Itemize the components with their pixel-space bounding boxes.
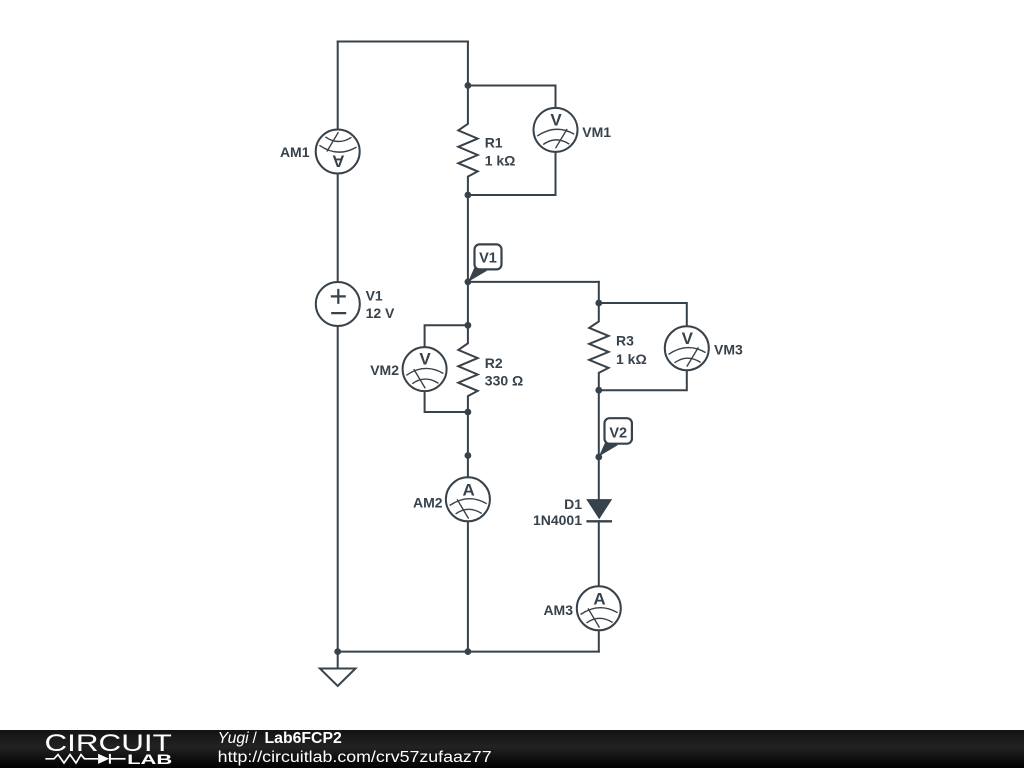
wire: VM3 top connection (599, 303, 687, 326)
wire: node V1 down to R2 top node (467, 282, 469, 325)
ammeter AM1 (flipped vertically) (316, 130, 360, 174)
svg-text:http://circuitlab.com/crv57zuf: http://circuitlab.com/crv57zufaaz77 (218, 749, 492, 766)
net tag V1 (468, 244, 501, 282)
wire: top horizontal rail (338, 41, 468, 43)
resistor R1 (458, 86, 477, 196)
svg-text:1 kΩ: 1 kΩ (616, 351, 647, 367)
svg-text:AM2: AM2 (413, 494, 443, 510)
wire: VM1 top connection (468, 86, 556, 108)
svg-text:AM1: AM1 (280, 144, 310, 160)
wire: V1 bottom to ground rail (337, 326, 339, 652)
svg-text:VM3: VM3 (714, 342, 743, 358)
svg-text:VM2: VM2 (370, 362, 399, 378)
wire: R3 bottom node through node V2 to diode D1 (598, 390, 600, 500)
svg-text:1 kΩ: 1 kΩ (485, 152, 516, 168)
voltmeter VM3 (665, 326, 709, 370)
ammeter AM3 (577, 586, 621, 630)
wire: R1 bottom node to node V1 (467, 195, 469, 282)
ground (320, 652, 356, 686)
svg-text:V1: V1 (479, 250, 497, 266)
wire: VM2 bottom connection (425, 391, 468, 412)
node dot: R1 top (465, 82, 472, 89)
voltage source V1 (316, 282, 360, 326)
resistor R2 (458, 325, 477, 412)
voltmeter VM2 (403, 347, 447, 391)
wire: VM2 top connection (425, 325, 468, 347)
wire: VM3 bottom connection (599, 370, 687, 390)
node dot: R2 bottom (465, 409, 472, 416)
wire: node V1 horizontal to R3 branch (468, 281, 599, 283)
svg-text:/: / (253, 730, 258, 747)
node dot: AM2 top (465, 452, 472, 459)
svg-text:V1: V1 (366, 288, 383, 304)
svg-text:R3: R3 (616, 333, 634, 349)
wire: bottom ground rail (338, 651, 599, 653)
wire: AM2 bottom to ground rail (467, 521, 469, 651)
wire: AM1 bottom to V1 top (337, 174, 339, 283)
svg-text:R1: R1 (485, 135, 503, 151)
ammeter AM2 (446, 477, 490, 521)
CircuitLab logo resistor-diode glyph (45, 755, 98, 763)
svg-text:V2: V2 (609, 425, 627, 441)
resistor R3 (589, 303, 608, 390)
wire: R3 branch top stub (598, 282, 600, 303)
svg-text:330 Ω: 330 Ω (485, 373, 523, 389)
node dot: net V1 (465, 279, 472, 286)
node dot: net V2 (595, 454, 602, 461)
node dot: ground rail center (465, 648, 472, 655)
wire: left vertical from top rail to AM1 (337, 42, 339, 130)
svg-text:VM1: VM1 (582, 124, 611, 140)
voltmeter VM1 (534, 108, 578, 152)
svg-text:Lab6FCP2: Lab6FCP2 (265, 730, 342, 747)
node dot: R3 top (595, 300, 602, 307)
wire: R2 bottom to AM2 top (467, 412, 469, 477)
node dot: R2 top (465, 322, 472, 329)
wire: diode D1 to AM3 (598, 521, 600, 586)
svg-text:D1: D1 (564, 496, 582, 512)
svg-text:R2: R2 (485, 355, 503, 371)
wire: right vertical from top rail to R1 node (467, 42, 469, 86)
diode D1 (586, 500, 612, 522)
wire: AM3 bottom to ground rail (598, 630, 600, 651)
svg-text:AM3: AM3 (543, 602, 573, 618)
node dot: ground rail left (334, 648, 341, 655)
svg-text:1N4001: 1N4001 (533, 512, 582, 528)
wire: VM1 bottom connection (468, 152, 556, 195)
svg-text:Yugi: Yugi (218, 730, 250, 747)
node dot: R1 bottom (465, 192, 472, 199)
net tag V2 (599, 418, 632, 456)
node dot: R3 bottom (595, 387, 602, 394)
svg-text:12 V: 12 V (366, 305, 395, 321)
